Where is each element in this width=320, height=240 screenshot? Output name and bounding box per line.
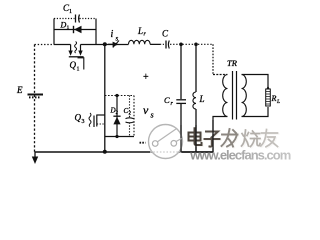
node: D2 bottom [115,135,118,138]
svg-text:v: v [143,103,149,117]
svg-text:1: 1 [69,9,72,15]
wire: secondary top to load [242,75,269,89]
wire: bottom rail over watermark [182,151,214,153]
wire: rail corner down to transformer top [212,44,214,74]
transistor Q1 symbol: two down arrows, wavy gate, bar and bracket [70,45,72,52]
transformer TR primary winding [223,75,228,117]
wire: tank L vertical [195,44,197,92]
capacitor C1 plates [75,15,77,23]
inductor Lr on top rail [129,40,151,44]
arrow at load top [266,86,270,90]
svg-text:L: L [276,99,280,105]
wire: to transformer primary top [213,74,228,76]
svg-text:1: 1 [67,25,70,31]
node: tank L junction [194,43,198,47]
capacitor C1 branch dotted wire [54,18,96,20]
snubber box left vertical [53,19,55,45]
svg-text:Q: Q [75,113,82,123]
capacitor C on top rail: plates [165,41,167,49]
svg-text:C: C [162,29,169,39]
wire: main top rail mid segment [81,43,161,45]
transformer TR secondary winding [242,75,247,117]
diode D2 branch vertical [116,96,118,137]
mosfet Q3 source stub dotted [97,123,105,125]
wire: primary bottom to bottom rail [213,117,228,153]
watermark text: 发 [222,129,239,148]
tank Cr line over logo edge [180,125,182,152]
watermark text: 烧 [242,130,262,148]
watermark text: 友 [261,130,279,148]
current arrow i_s [108,43,114,45]
svg-text:1: 1 [77,67,80,73]
svg-text:L: L [199,94,205,104]
mosfet Q3 wavy gate lead [89,113,91,127]
node: tank Cr junction [179,43,183,47]
Q3 box bottom wire [105,136,134,138]
svg-text:s: s [116,35,119,43]
minus sign of vs [140,142,146,144]
wire: secondary bottom to load [242,107,269,117]
diode D1 (pointing left) [74,26,82,33]
svg-text:s: s [151,111,154,120]
diode D2 (pointing up) [113,117,120,125]
wire: tank L line over watermark [195,125,197,152]
svg-text:3: 3 [82,119,85,125]
faint bottom rail seen through logo [150,151,182,153]
node: main rail / Q3 leg junction [103,42,107,46]
watermark logo circle [149,125,183,159]
inductor L (vertical coil, bumps left) [193,92,196,109]
Q3 snubber dotted box top [105,95,134,97]
svg-text:i: i [111,29,114,40]
mosfet Q3 gate bars [93,116,95,128]
watermark text: 电 [189,128,203,146]
wire: tank Cr vertical [180,44,182,99]
wire: top-left dotted connector [35,44,55,46]
wire: Q3 leg main vertical [104,44,106,152]
svg-text:L: L [137,26,143,36]
capacitor C2 plates [126,117,134,120]
transformer core lines [232,71,234,120]
diode D1 branch wire [54,29,96,31]
svg-text:R: R [271,94,277,103]
capacitor Cr plates [176,99,186,101]
wire: dotted top rail right of C [170,43,213,45]
snubber box right vertical [95,19,97,45]
node: junction bottom rail / Q3 leg [103,150,107,154]
svg-text:Q: Q [70,60,77,70]
battery E plates [28,94,44,96]
svg-text:E: E [16,85,23,95]
node: D2 top [115,94,118,97]
capacitor C2 branch dotted vertical [129,96,131,137]
svg-text:www.elecfans.com: www.elecfans.com [189,147,291,162]
wire: transformer leg over watermark [212,120,214,152]
svg-text:TR: TR [227,58,238,68]
wire: left rail dashed vertical [34,45,36,153]
load RL (hatched box) [266,89,271,106]
svg-text:C: C [164,95,170,105]
ground arrow at bottom of left rail [34,152,36,160]
watermark text: 子 [205,132,221,148]
Q3 snubber dotted box right [133,96,135,137]
wire: bottom rail [35,151,214,153]
svg-text:+: + [143,72,149,83]
wire: dotted stub into C [160,43,166,45]
mosfet Q3 drain stub [97,114,105,116]
svg-text:D: D [60,21,67,30]
wire: main top rail left segment [54,44,71,46]
